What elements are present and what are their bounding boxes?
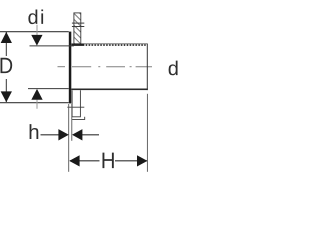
label H bbox=[103, 153, 114, 169]
pipe bottom edge bbox=[71, 89, 148, 91]
dimension H extension line right bbox=[146, 94, 148, 172]
centerline bbox=[58, 66, 153, 68]
collar outline bottom bbox=[67, 90, 84, 119]
label d bbox=[169, 61, 178, 76]
dimension D arrow bottom bbox=[1, 91, 12, 102]
dimension di leader line bbox=[36, 25, 38, 109]
pipe body outline bbox=[71, 44, 148, 90]
collar section (hatched) bbox=[74, 13, 81, 44]
pipe right end bbox=[146, 44, 148, 90]
dimension h arrow left bbox=[58, 129, 68, 140]
dimension di arrow bottom bbox=[31, 89, 42, 100]
label di bbox=[28, 9, 43, 24]
dimension D extension lines bbox=[0, 32, 69, 103]
dimension H arrow right bbox=[137, 155, 147, 166]
label D bbox=[1, 58, 13, 73]
dimension D arrow top bbox=[1, 32, 12, 43]
dimension h line left bbox=[41, 134, 60, 136]
dimension h arrow right bbox=[72, 129, 82, 140]
dimension h extension lines bbox=[69, 104, 72, 172]
dimension h line right bbox=[82, 134, 99, 136]
flange plate (dark bar) bbox=[69, 32, 72, 104]
dimension di extension lines bbox=[28, 46, 74, 89]
label h bbox=[30, 124, 39, 139]
pipe top edge bbox=[71, 43, 147, 45]
dimension D line bbox=[5, 32, 7, 102]
dimension H line bbox=[70, 160, 147, 162]
dimension di arrow top bbox=[31, 35, 42, 46]
pipe serrated surface bbox=[84, 44, 146, 46]
collar lip lines top bbox=[72, 23, 84, 26]
dimension H arrow left bbox=[69, 155, 79, 166]
collar foot weld band bbox=[72, 44, 85, 46]
